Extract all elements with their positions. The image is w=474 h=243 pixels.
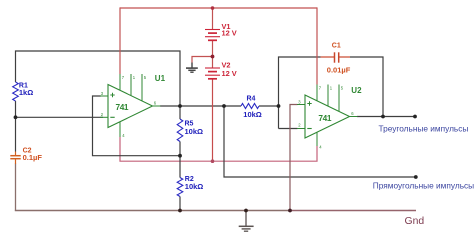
svg-text:10kΩ: 10kΩ: [185, 182, 204, 191]
svg-text:12 V: 12 V: [222, 28, 237, 37]
svg-text:C1: C1: [332, 43, 341, 50]
svg-text:U1: U1: [155, 74, 166, 83]
svg-text:Прямоугольные импульсы: Прямоугольные импульсы: [373, 180, 474, 190]
svg-text:741: 741: [318, 113, 331, 123]
svg-text:12 V: 12 V: [222, 69, 237, 78]
svg-text:U2: U2: [351, 86, 362, 95]
svg-text:741: 741: [116, 102, 129, 112]
svg-text:Gnd: Gnd: [405, 216, 425, 227]
svg-text:Треугольные импульсы: Треугольные импульсы: [379, 124, 469, 134]
svg-text:10kΩ: 10kΩ: [243, 110, 262, 119]
svg-text:R4: R4: [247, 96, 256, 103]
svg-text:0.1µF: 0.1µF: [23, 153, 43, 162]
svg-text:1kΩ: 1kΩ: [19, 88, 33, 97]
svg-text:0.01µF: 0.01µF: [327, 66, 351, 75]
svg-text:10kΩ: 10kΩ: [185, 127, 204, 136]
